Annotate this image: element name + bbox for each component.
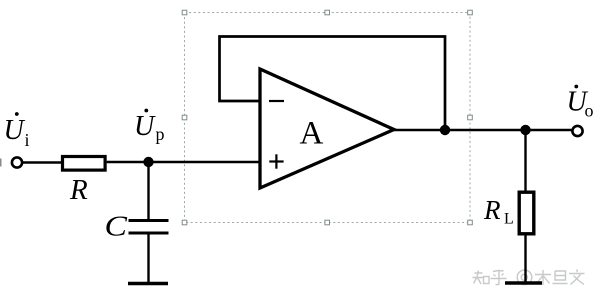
op-amp A triangle <box>260 69 394 188</box>
node Up dot <box>143 157 153 167</box>
wire node to RL <box>524 130 526 192</box>
svg-text:R: R <box>69 174 88 206</box>
@ <box>517 270 532 285</box>
wire capacitor to ground <box>147 233 149 282</box>
知 <box>473 271 484 285</box>
乎 <box>491 271 507 285</box>
terminal Uo circle <box>572 126 582 136</box>
capacitor C plates <box>129 219 169 222</box>
svg-text:L: L <box>504 211 514 228</box>
wire input to R <box>23 161 62 163</box>
resistor R <box>63 157 106 171</box>
feedback loop wire <box>220 37 446 131</box>
ground 2 <box>505 281 542 285</box>
label U_p <box>134 109 165 144</box>
旦 <box>553 271 568 284</box>
node dot at feedback junction <box>440 125 450 135</box>
svg-text:R: R <box>483 195 501 225</box>
node dot at RL junction <box>520 125 530 135</box>
watermark 知乎 @木旦文 <box>473 270 585 286</box>
left edge crop artifact <box>0 159 2 167</box>
label R_L <box>483 195 514 228</box>
wire R to op-amp (through node) <box>107 161 259 163</box>
木 <box>535 270 551 285</box>
svg-text:U: U <box>134 111 156 142</box>
svg-text:U: U <box>4 115 26 146</box>
label U_o <box>567 85 594 121</box>
svg-text:C: C <box>105 210 129 242</box>
svg-text:o: o <box>585 101 594 121</box>
wire node to capacitor <box>147 162 149 221</box>
wire RL to ground <box>524 234 526 282</box>
label U_i <box>4 112 30 150</box>
resistor RL <box>519 192 534 234</box>
minus input sign <box>269 100 284 102</box>
plus input sign <box>269 160 283 162</box>
svg-text:i: i <box>25 130 30 150</box>
svg-text:A: A <box>300 116 324 152</box>
svg-text:p: p <box>156 124 165 144</box>
ground 1 <box>128 282 168 286</box>
selection handles <box>182 10 472 225</box>
文 <box>569 270 585 285</box>
output wire <box>392 129 572 131</box>
dashed selection box <box>185 13 471 223</box>
terminal Ui circle <box>12 157 22 167</box>
